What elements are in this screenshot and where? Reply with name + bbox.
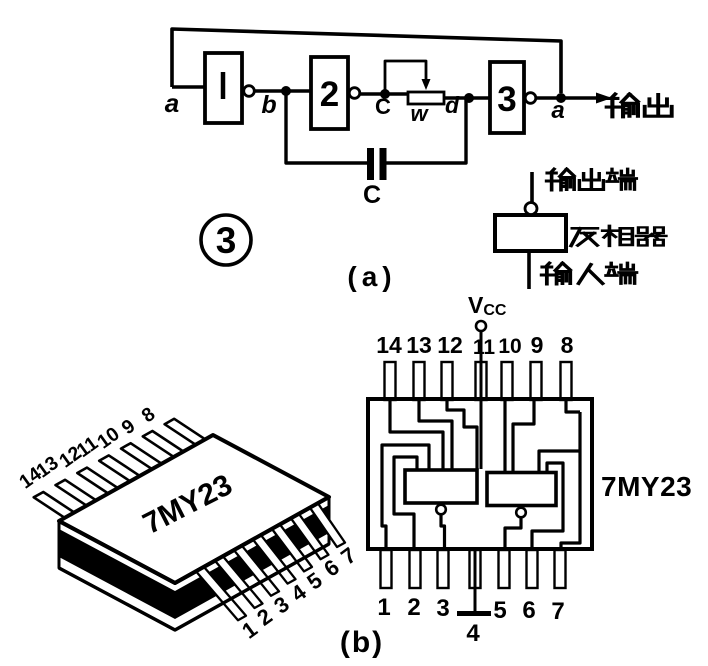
package bottom pins 1-7 <box>196 503 345 620</box>
wire capacitor branch right <box>387 98 467 163</box>
svg-text:w: w <box>410 101 429 126</box>
inverter A bubble <box>436 505 446 515</box>
label 输出 output <box>607 94 638 117</box>
svg-text:C: C <box>363 181 381 209</box>
wire inverter A output <box>441 514 445 549</box>
svg-text:d: d <box>445 92 460 118</box>
svg-text:(a): (a) <box>347 261 396 292</box>
label 反相器 inverter <box>571 228 597 246</box>
package top pins 14-8 <box>34 419 206 518</box>
wire d segment <box>444 96 490 99</box>
inverter U1 box <box>205 53 242 123</box>
pin 11 top <box>476 362 487 400</box>
pin 2 bottom <box>410 550 421 588</box>
wire pin 2 internal <box>394 457 417 549</box>
svg-text:(b): (b) <box>340 626 384 659</box>
svg-text:7: 7 <box>551 598 564 625</box>
svg-text:6: 6 <box>522 597 535 624</box>
pin 4 bottom <box>470 550 481 588</box>
node a output <box>556 93 566 103</box>
svg-text:11: 11 <box>473 336 496 359</box>
figure number 3 circled <box>201 215 251 265</box>
inverter U1 output bubble <box>244 86 255 97</box>
wire pin 6 internal <box>532 463 563 549</box>
pin 3 bottom <box>438 550 449 588</box>
wire pin 10 internal <box>503 399 506 473</box>
label 输出端 output terminal <box>547 169 575 190</box>
pin 12 top <box>442 362 453 400</box>
inverter U3 box <box>490 62 524 133</box>
svg-text:13: 13 <box>406 332 432 358</box>
package dark band <box>59 505 329 619</box>
wire Vcc to pin 11 <box>480 331 483 469</box>
pin 8 top <box>561 362 572 400</box>
wire pin 8 internal <box>566 399 580 412</box>
inverter B bubble <box>516 508 526 518</box>
wire right rect top entry <box>539 451 580 473</box>
svg-text:9: 9 <box>531 332 544 358</box>
wire inverter B output <box>505 519 521 550</box>
svg-text:C: C <box>375 94 391 119</box>
inverter block B <box>487 473 556 506</box>
wire pin 14 internal <box>390 399 443 470</box>
wire legend input lead <box>527 251 531 289</box>
svg-text:4: 4 <box>466 620 480 647</box>
package bottom edge line <box>59 544 329 630</box>
pin 7 bottom <box>555 550 566 588</box>
svg-text:b: b <box>261 91 276 119</box>
svg-text:3: 3 <box>497 80 516 119</box>
package side faces <box>59 497 329 630</box>
potentiometer W <box>408 92 444 104</box>
wire output segment <box>536 96 598 99</box>
inverter block A <box>405 470 477 503</box>
wire b segment <box>255 89 312 92</box>
package top face <box>59 435 329 583</box>
svg-text:14: 14 <box>376 332 402 358</box>
svg-text:2: 2 <box>407 594 420 621</box>
svg-text:1: 1 <box>377 594 390 621</box>
svg-text:7MY23: 7MY23 <box>601 471 692 502</box>
output arrowhead <box>596 93 612 104</box>
inverter U3 output bubble <box>525 93 536 104</box>
wire c segment <box>360 92 408 95</box>
pin 1 bottom <box>381 550 392 588</box>
wire pin 1 internal <box>382 445 429 549</box>
pin 14 top <box>385 362 396 400</box>
pin 13 top <box>414 362 425 400</box>
node d <box>464 93 474 103</box>
package front edge re-stroke <box>59 497 329 583</box>
wire pin 4 ground lead <box>474 551 477 612</box>
IC body outline <box>368 399 592 549</box>
label 输入端 input terminal <box>542 263 571 284</box>
svg-text:8: 8 <box>561 332 574 358</box>
svg-text:3: 3 <box>216 220 237 261</box>
inverter U2 box <box>311 57 348 129</box>
pin 9 top <box>531 362 542 400</box>
ground bar <box>457 611 491 616</box>
potentiometer wiper arrow <box>422 79 431 90</box>
svg-text:10: 10 <box>498 335 521 358</box>
wire pin 7 internal <box>561 412 580 549</box>
node b <box>281 86 291 96</box>
wire feedback loop <box>172 29 561 93</box>
wire input a <box>172 85 205 88</box>
inverter legend box <box>495 215 566 251</box>
inverter U2 output bubble <box>349 88 360 99</box>
capacitor C plates <box>367 148 374 180</box>
svg-text:3: 3 <box>436 595 449 622</box>
inverter legend bubble <box>525 203 537 215</box>
node c <box>380 89 390 99</box>
svg-text:5: 5 <box>493 597 506 624</box>
wire capacitor branch left <box>286 91 367 163</box>
svg-text:a: a <box>165 88 179 118</box>
svg-text:a: a <box>551 97 564 124</box>
Vcc terminal circle <box>476 321 486 331</box>
svg-text:2: 2 <box>320 75 339 114</box>
wire legend output lead <box>530 172 534 203</box>
wire pin 13 internal <box>419 399 452 470</box>
wire pin 9 internal <box>513 399 534 473</box>
pin 10 top <box>502 362 513 400</box>
pin 6 bottom <box>527 550 538 588</box>
wire pin 12 internal <box>447 399 477 470</box>
pin 5 bottom <box>499 550 510 588</box>
svg-text:12: 12 <box>437 332 463 358</box>
wire potentiometer bypass <box>385 61 426 94</box>
